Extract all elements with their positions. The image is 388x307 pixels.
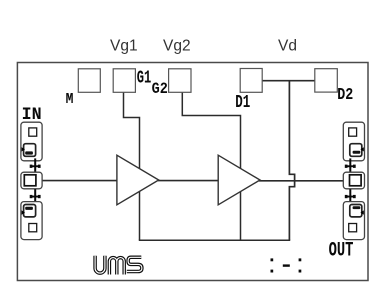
wire interstage xyxy=(158,180,219,182)
IN pad group bottom (dc block) xyxy=(21,202,42,240)
Gnd label xyxy=(353,151,361,154)
wire bottom rail xyxy=(139,239,290,241)
group outline xyxy=(343,172,364,189)
ground pad xyxy=(24,205,36,217)
arrow marker xyxy=(360,147,363,151)
wire G1 bias: pad G1 down, jog right, down to bottom rail xyxy=(124,92,140,240)
via square xyxy=(29,224,37,232)
wire RF output xyxy=(259,180,343,182)
via square xyxy=(349,224,357,232)
Gnd label xyxy=(25,151,33,154)
OUT pad group top (dc block) xyxy=(343,122,364,161)
group outline xyxy=(21,202,42,240)
svg-text:Vd: Vd xyxy=(278,38,297,55)
plus marker IN lower xyxy=(30,189,41,202)
amplifier stage 2 xyxy=(218,155,260,205)
svg-text:M: M xyxy=(66,92,74,108)
plus marker IN upper xyxy=(30,158,41,171)
pad D1 xyxy=(240,69,262,93)
group outline xyxy=(343,122,364,161)
Gnd label xyxy=(353,206,361,209)
pad G2 xyxy=(169,69,191,93)
pad D2 xyxy=(315,69,338,92)
alignment mark (dashed brackets with dash) xyxy=(271,258,302,272)
plus marker OUT upper xyxy=(345,158,356,171)
svg-text:D1: D1 xyxy=(235,92,250,113)
group outline xyxy=(21,172,42,189)
Gnd label xyxy=(25,207,33,210)
IN pad group center (RF pad) xyxy=(21,172,42,189)
plus marker OUT lower xyxy=(345,189,356,202)
arrow marker xyxy=(22,147,25,151)
svg-text:Vg1: Vg1 xyxy=(110,38,138,55)
pad G1 xyxy=(113,69,135,93)
group outline xyxy=(21,122,42,161)
IN pad group top (dc block) xyxy=(21,122,42,161)
svg-text:D2: D2 xyxy=(337,86,353,105)
amplifier stage 1 xyxy=(117,155,159,205)
via square xyxy=(29,128,37,136)
svg-text:G1: G1 xyxy=(137,69,152,89)
svg-text:OUT: OUT xyxy=(329,240,354,263)
wire G2 bias: pad G2 down, jog right, down to bottom rail xyxy=(182,92,240,240)
OUT pad group bottom (dc block) xyxy=(343,202,364,240)
wire Vd vertical with crossover jog xyxy=(289,81,294,241)
pad M xyxy=(78,69,100,93)
ground pad xyxy=(350,205,362,217)
chip outline xyxy=(17,63,368,281)
group outline xyxy=(343,202,364,240)
OUT pad group center (RF pad) xyxy=(343,172,364,189)
svg-text:Vg2: Vg2 xyxy=(163,38,191,55)
RF input pad square xyxy=(24,175,36,186)
arrow marker xyxy=(360,210,363,214)
ground pad xyxy=(350,144,362,157)
RF output pad square xyxy=(350,175,362,186)
svg-text:G2: G2 xyxy=(152,80,168,98)
wire RF input xyxy=(42,180,117,182)
UMS logo xyxy=(95,256,142,275)
wire D1-D2 interconnect xyxy=(262,80,315,82)
ground pad xyxy=(24,144,36,157)
arrow marker xyxy=(22,210,25,214)
via square xyxy=(349,128,357,136)
